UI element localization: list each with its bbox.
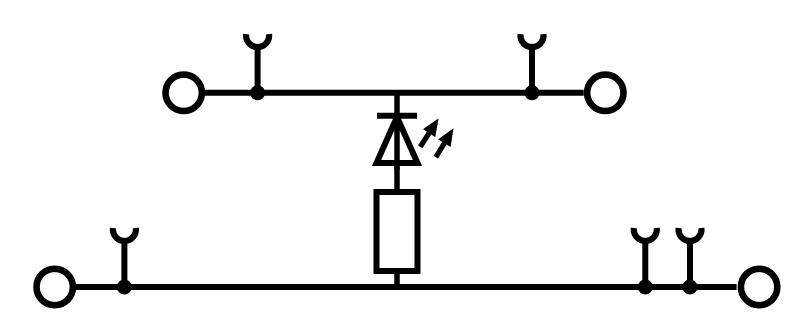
LED D1 xyxy=(377,116,454,170)
wire (LED to resistor) xyxy=(394,163,400,192)
test socket tap (top right) xyxy=(521,34,544,93)
wire top rail xyxy=(205,90,584,96)
junction dot (bottom right 1) xyxy=(638,280,653,295)
junction dot (bottom left) xyxy=(117,280,132,295)
terminal circle right (top rail) xyxy=(587,75,623,111)
wire bottom rail xyxy=(76,284,737,290)
resistor R1 xyxy=(377,192,418,271)
junction dot (bottom right 2) xyxy=(683,280,698,295)
wire branch (top rail to LED) xyxy=(394,93,400,116)
terminal circle right (bottom rail) xyxy=(741,269,777,305)
test socket tap (bottom right 1) xyxy=(634,228,657,287)
junction dot (top right) xyxy=(525,85,540,100)
wire (resistor to bottom rail) xyxy=(394,271,400,287)
junction dot (top left) xyxy=(250,85,265,100)
terminal circle left (top rail) xyxy=(166,75,202,111)
test socket tap (bottom left) xyxy=(113,228,136,287)
test socket tap (top left) xyxy=(246,34,269,93)
terminal circle left (bottom rail) xyxy=(37,269,73,305)
test socket tap (bottom right 2) xyxy=(679,228,702,287)
